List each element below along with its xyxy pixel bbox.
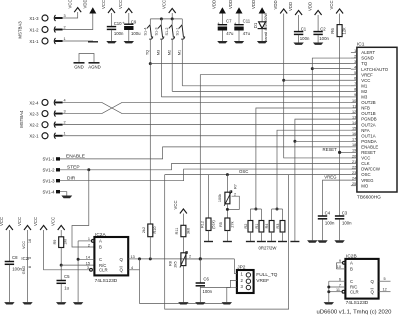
- wire DIR to DWCCW: [60, 169, 351, 181]
- svg-text:16: 16: [28, 239, 32, 243]
- svg-text:(51k): (51k): [212, 219, 216, 228]
- IC1 pin 10 OUT2B: [351, 99, 376, 105]
- svg-text:VDD: VDD: [83, 0, 88, 9]
- svg-text:3k6: 3k6: [186, 228, 190, 234]
- junction IC2B CLR: [327, 290, 330, 293]
- svg-text:0R27/2W: 0R27/2W: [259, 246, 278, 251]
- junction R10 at FULL_TQ: [149, 257, 152, 260]
- IC1 pin 9 M3: [351, 93, 368, 99]
- IC1 pin 6 VCC: [351, 77, 370, 83]
- svg-text:VCC: VCC: [68, 0, 73, 9]
- svg-text:2: 2: [88, 243, 90, 247]
- IC1 pin 15 NFA: [351, 127, 370, 133]
- svg-text:VCC: VCC: [22, 241, 26, 249]
- IC2B pin 5 Q: [379, 277, 391, 281]
- switch S1-4: [143, 19, 152, 64]
- svg-text:X1-2: X1-2: [29, 27, 39, 32]
- ground under C10: [106, 41, 116, 43]
- IC1 pin 25 MO: [351, 182, 369, 188]
- svg-text:M2: M2: [361, 89, 368, 94]
- wire RESET pin19: [340, 151, 351, 153]
- svg-text:uD6600 v1.1, Tmhq (c) 2020: uD6600 v1.1, Tmhq (c) 2020: [317, 310, 393, 316]
- svg-text:8: 8: [28, 266, 32, 268]
- ground under C1: [293, 43, 303, 45]
- capacitor C7 47u polarized: [217, 14, 234, 42]
- resistor R10 2k2: [142, 224, 157, 259]
- op-amp IC2A 74LS123D body: [94, 232, 128, 284]
- wire X2-2 to OUT2A pin14: [63, 124, 351, 126]
- junction RESET on POR line: [338, 151, 341, 154]
- wire SGND pin2: [312, 58, 351, 240]
- ground under R8: [178, 302, 188, 304]
- ground under R2: [246, 241, 255, 243]
- svg-text:24: 24: [352, 176, 356, 180]
- svg-text:4: 4: [354, 65, 356, 69]
- svg-text:4: 4: [131, 266, 133, 270]
- svg-text:R5: R5: [219, 222, 223, 227]
- svg-text:2: 2: [354, 54, 356, 58]
- svg-text:VCC: VCC: [162, 0, 167, 9]
- junction NFB sense pair: [254, 208, 257, 211]
- svg-text:A: A: [99, 239, 102, 244]
- svg-text:R6: R6: [330, 28, 335, 34]
- svg-text:100u: 100u: [131, 31, 141, 36]
- svg-text:VREF: VREF: [256, 278, 269, 284]
- svg-text:B: B: [99, 245, 102, 250]
- svg-text:S1-3: S1-3: [154, 27, 158, 35]
- potentiometer R7 100k: [218, 175, 239, 218]
- supply VCC above C10: [101, 0, 115, 13]
- svg-text:SV1-1: SV1-1: [43, 157, 56, 162]
- switch S1-2: [165, 19, 174, 91]
- svg-text:C10: C10: [114, 21, 122, 26]
- junction S1 rail M3: [160, 17, 163, 20]
- wire Qbar down to gnd rail: [140, 259, 228, 304]
- svg-text:100n: 100n: [300, 36, 310, 41]
- svg-text:TQ: TQ: [361, 61, 368, 66]
- IC1 pin 2 SGND: [351, 54, 374, 60]
- svg-text:IC1: IC1: [357, 42, 365, 48]
- svg-text:OUT2A: OUT2A: [361, 122, 375, 127]
- ground under C2: [313, 43, 323, 45]
- capacitor C10 100n: [107, 13, 124, 41]
- resistor R5 27k: [219, 218, 234, 242]
- svg-text:2k2: 2k2: [142, 227, 146, 233]
- IC1 pin 16 OUT1A: [351, 132, 376, 138]
- svg-text:OUT2B: OUT2B: [361, 100, 375, 105]
- svg-text:14: 14: [352, 121, 356, 125]
- capacitor C9 100u polarized: [122, 13, 141, 41]
- svg-text:R7: R7: [234, 184, 238, 189]
- svg-text:VCC: VCC: [17, 217, 22, 226]
- svg-text:100k: 100k: [218, 194, 222, 202]
- svg-text:M1: M1: [361, 83, 368, 88]
- wire PGNDB pin13: [295, 119, 351, 241]
- svg-text:IC2B: IC2B: [346, 254, 357, 260]
- junction OSC at R7: [226, 173, 229, 176]
- ground under C3: [334, 240, 344, 242]
- ground under SGND line: [307, 240, 317, 242]
- potentiometer R8 2k5: [168, 251, 200, 302]
- svg-text:100n: 100n: [319, 36, 329, 41]
- svg-text:VDD: VDD: [211, 0, 216, 9]
- svg-text:3: 3: [354, 60, 356, 64]
- ground under C6: [195, 302, 205, 304]
- wire X1-2 to VDD: [63, 13, 93, 30]
- svg-text:CLR: CLR: [99, 268, 108, 273]
- ground under IC2A A: [73, 302, 83, 304]
- ground under R4: [267, 241, 276, 243]
- svg-text:VCC: VCC: [118, 0, 123, 9]
- svg-text:47u: 47u: [243, 31, 251, 36]
- svg-text:5: 5: [354, 71, 356, 75]
- IC2B pin 7 R/C: [329, 283, 346, 287]
- svg-text:C4: C4: [325, 211, 331, 216]
- resistor R9 1M: [53, 230, 68, 265]
- wire IC2A A to ground: [77, 241, 79, 302]
- svg-text:C2: C2: [320, 26, 326, 31]
- wire X2-1 to OUT1A pin16: [63, 135, 351, 137]
- connector SV1 pin 2: [43, 168, 60, 173]
- supply VCC above R11: [173, 200, 187, 213]
- IC1 pin 5 VREF: [351, 71, 373, 77]
- wire R6 down to VREG net and C3: [339, 37, 341, 216]
- ground under IC2B: [324, 302, 334, 304]
- svg-text:VDD: VDD: [228, 0, 233, 9]
- wire X1-1 to GND: [63, 40, 93, 42]
- svg-text:NFA: NFA: [361, 128, 369, 133]
- svg-text:100n: 100n: [114, 31, 124, 36]
- connector JP2 body: [237, 264, 254, 293]
- resistor R3: [276, 221, 285, 242]
- svg-text:21: 21: [352, 160, 356, 164]
- IC2B pin 6 C: [329, 278, 346, 282]
- svg-text:R12: R12: [200, 221, 204, 228]
- svg-text:S1-4: S1-4: [143, 27, 147, 35]
- wire X2-4 crossover to OUT1B pin12: [63, 102, 351, 113]
- svg-text:1: 1: [64, 132, 66, 136]
- ground under C11: [234, 41, 244, 43]
- svg-text:PGNDB: PGNDB: [361, 117, 376, 122]
- svg-text:9: 9: [354, 93, 356, 97]
- resistor R4: [265, 221, 274, 242]
- ground under PGND line: [290, 241, 299, 243]
- svg-text:3: 3: [64, 109, 66, 113]
- svg-text:VREG: VREG: [324, 175, 337, 180]
- IC2A pin 14 C: [78, 256, 94, 260]
- supply VCC above R9: [51, 217, 65, 230]
- svg-text:1: 1: [354, 49, 356, 53]
- switch S1-3: [154, 19, 163, 97]
- svg-text:TQ: TQ: [146, 50, 150, 55]
- ground under C5: [56, 302, 66, 304]
- svg-text:2: 2: [64, 25, 66, 29]
- wire NFA pair top: [272, 209, 283, 221]
- svg-text:8: 8: [354, 88, 356, 92]
- svg-text:NFB: NFB: [361, 106, 370, 111]
- svg-text:R2: R2: [244, 224, 248, 229]
- IC2B pin 10 B: [336, 265, 345, 269]
- svg-text:5: 5: [384, 277, 386, 281]
- ground GND with AGND bridge: [74, 54, 101, 70]
- svg-text:RESET: RESET: [322, 147, 337, 152]
- op-amp IC1 TB6600HG body: [357, 42, 397, 201]
- connector X1 pin 3: [29, 14, 65, 21]
- svg-text:FULL_TQ: FULL_TQ: [256, 272, 277, 278]
- capacitor C2 100n: [313, 15, 329, 43]
- IC1 pin 19 RESET: [351, 149, 376, 155]
- svg-text:X2-1: X2-1: [29, 134, 39, 139]
- svg-text:12: 12: [383, 288, 387, 292]
- ground under R3: [278, 241, 287, 243]
- ground under D1: [257, 41, 267, 43]
- connector X2 pin 4: [29, 98, 65, 105]
- svg-text:2k5: 2k5: [173, 261, 177, 267]
- IC1 pin 4 LATCH/AUTO: [351, 65, 389, 71]
- svg-text:ALERT: ALERT: [361, 50, 375, 55]
- svg-text:VCC: VCC: [33, 217, 38, 226]
- wire ENABLE: [60, 147, 351, 159]
- IC1 pin 17 PGNDA: [351, 138, 377, 144]
- ground under C9: [124, 41, 134, 43]
- svg-text:VDD: VDD: [273, 0, 278, 9]
- supply VCC above IC2P: [17, 217, 31, 230]
- junction PGNDA: [293, 140, 296, 143]
- connector SV1 pin 4: [43, 190, 60, 195]
- junction IC2B RC: [327, 286, 330, 289]
- wire LATCH/AUTO pin4: [312, 68, 351, 70]
- svg-text:100n: 100n: [12, 267, 22, 272]
- wire NFB pair top: [250, 209, 261, 221]
- ground under R5: [223, 241, 232, 243]
- svg-text:C: C: [99, 257, 102, 262]
- svg-text:9: 9: [339, 259, 341, 263]
- svg-text:VCC: VCC: [173, 200, 178, 209]
- junction VREF wiper C6: [199, 257, 202, 260]
- resistor R6 12k: [330, 14, 347, 37]
- IC2A pin 4 Qbar: [128, 266, 139, 270]
- svg-text:OUT1A: OUT1A: [361, 133, 375, 138]
- wire IC2B A-B tie: [335, 263, 337, 269]
- junction VDD at pin6 row: [282, 79, 285, 82]
- svg-text:4: 4: [64, 98, 66, 102]
- junction STEP: [87, 168, 90, 171]
- svg-text:12k: 12k: [342, 27, 347, 35]
- wire PGNDA pin17: [295, 140, 351, 142]
- svg-text:D1: D1: [253, 22, 258, 28]
- connector X2 pin 1: [29, 132, 65, 139]
- resistor R12 (51k): [200, 175, 215, 242]
- svg-text:LATCH/AUTO: LATCH/AUTO: [361, 67, 388, 72]
- svg-text:VDD: VDD: [288, 2, 293, 11]
- svg-text:S1-1: S1-1: [175, 27, 179, 35]
- svg-text:R9: R9: [53, 240, 57, 245]
- ground under C8: [4, 302, 14, 304]
- power symbol IC2P: [21, 230, 31, 302]
- IC2A pin 13 Q: [128, 255, 139, 259]
- svg-text:23: 23: [352, 171, 356, 175]
- svg-text:11: 11: [336, 288, 340, 292]
- wire S1 top rail: [150, 13, 182, 19]
- capacitor C8 100n: [5, 230, 23, 302]
- svg-text:OSC: OSC: [239, 169, 248, 174]
- switch S1-1: [175, 19, 184, 86]
- svg-text:47u: 47u: [226, 31, 234, 36]
- wire FULL_TQ from Q: [140, 258, 235, 260]
- connector X2 pin 2: [29, 120, 65, 127]
- JP2 pin 2: [200, 278, 250, 288]
- ground under C4: [317, 240, 327, 242]
- resistor R1: [255, 221, 264, 242]
- IC2B pin 11 CLR: [329, 288, 345, 293]
- IC1 pin 7 M1: [351, 82, 368, 88]
- IC1 pin 13 PGNDB: [351, 115, 377, 121]
- wire SV1-4 to ground: [60, 192, 67, 196]
- IC1 pin 21 CLK: [351, 160, 370, 166]
- wire VCC to CLR pin3: [44, 230, 90, 270]
- svg-text:X2-4: X2-4: [29, 100, 39, 105]
- svg-text:C7: C7: [226, 19, 232, 24]
- svg-text:MSTBA3: MSTBA3: [18, 21, 23, 39]
- junction R9 RC node: [60, 264, 63, 267]
- wire OSC pin23: [165, 174, 351, 176]
- svg-text:CLR: CLR: [350, 289, 359, 294]
- svg-text:CLK: CLK: [361, 161, 369, 166]
- svg-text:7: 7: [339, 283, 341, 287]
- supply VDD above D1: [251, 0, 266, 14]
- svg-text:R1: R1: [255, 224, 259, 229]
- wire M3 to IC1 pin9: [161, 96, 351, 98]
- svg-text:1: 1: [64, 37, 66, 41]
- svg-text:1: 1: [88, 237, 90, 241]
- capacitor C1 100n: [294, 15, 310, 43]
- svg-text:10: 10: [337, 265, 341, 269]
- svg-text:C5: C5: [64, 274, 70, 279]
- op-amp IC2B 74LS123D body: [345, 254, 378, 306]
- svg-text:GND: GND: [74, 65, 84, 70]
- capacitor C3 100n: [335, 211, 352, 241]
- wire VDD to pin6: [284, 79, 351, 81]
- svg-text:RESET: RESET: [361, 150, 376, 155]
- supply VCC: [68, 0, 82, 12]
- svg-text:DW/CCW: DW/CCW: [361, 167, 381, 172]
- wire TQ to IC1 pin3: [150, 63, 351, 65]
- svg-text:7: 7: [354, 82, 356, 86]
- connector X1 pin 2: [29, 25, 65, 32]
- supply VCC to IC2A CLR: [33, 217, 47, 230]
- wire STEP down to IC2A B: [72, 170, 94, 247]
- svg-text:C6: C6: [203, 276, 209, 281]
- capacitor C11 47u polarized: [234, 14, 251, 42]
- IC2A pin 3 CLR: [87, 266, 93, 271]
- svg-text:12: 12: [352, 110, 356, 114]
- IC1 pin 22 DW/CCW: [351, 165, 381, 171]
- svg-text:10: 10: [352, 99, 356, 103]
- ground under IC2P: [22, 302, 32, 304]
- svg-text:R8: R8: [168, 261, 172, 266]
- svg-text:VREF: VREF: [361, 72, 373, 77]
- supply VDD above C1: [288, 2, 302, 15]
- svg-text:SV1-4: SV1-4: [43, 190, 56, 195]
- wire RC node to pin15: [61, 264, 94, 266]
- svg-text:6: 6: [354, 77, 356, 81]
- ground under C7: [217, 41, 227, 43]
- supply VCC above C8: [0, 217, 13, 230]
- connector SV1 pin 1: [43, 157, 60, 162]
- capacitor C5 1u: [57, 265, 71, 302]
- svg-text:2: 2: [64, 120, 66, 124]
- svg-text:X1-1: X1-1: [29, 39, 39, 44]
- svg-text:M3: M3: [157, 50, 161, 55]
- svg-text:X2-2: X2-2: [29, 122, 39, 127]
- svg-text:OSC: OSC: [361, 172, 370, 177]
- svg-text:15: 15: [86, 261, 90, 265]
- wire VDD rail down: [284, 14, 351, 158]
- connector X2 pin 3: [29, 109, 65, 116]
- svg-text:X1-3: X1-3: [29, 16, 39, 21]
- supply VCC above S1: [162, 0, 176, 13]
- supply VDD above C2: [307, 2, 321, 15]
- wire NFA pin15: [277, 130, 351, 209]
- svg-text:OUT1B: OUT1B: [361, 111, 375, 116]
- junction Qbar branch: [138, 257, 141, 260]
- IC2B pin 9 A: [336, 259, 345, 264]
- supply VCC above C9: [118, 0, 132, 13]
- IC1 pin 1 ALERT: [351, 49, 376, 55]
- svg-text:VCC: VCC: [361, 78, 370, 83]
- resistor R11 3k6: [175, 214, 190, 253]
- svg-text:VCC: VCC: [361, 156, 370, 161]
- svg-text:M3: M3: [361, 95, 368, 100]
- wire X2-3 crossover to OUT2B pin10: [63, 102, 351, 113]
- junction NFA sense pair: [276, 208, 279, 211]
- IC1 pin 8 M2: [351, 88, 368, 94]
- svg-text:S1-2: S1-2: [165, 27, 169, 35]
- svg-text:ENABLE: ENABLE: [361, 144, 378, 149]
- svg-text:A: A: [350, 261, 353, 266]
- supply VCC above R6: [329, 0, 343, 13]
- svg-text:11: 11: [352, 104, 356, 108]
- supply VDD above C7: [211, 0, 226, 14]
- svg-text:VCC: VCC: [0, 217, 4, 226]
- svg-text:3: 3: [87, 266, 89, 270]
- wire IC2B C RC CLR to ground: [328, 281, 330, 302]
- svg-text:MO: MO: [361, 183, 369, 188]
- connector SV1 pin 3: [43, 179, 60, 184]
- svg-text:JP2: JP2: [237, 264, 246, 270]
- ground under SV1-4: [61, 196, 72, 199]
- svg-text:15: 15: [352, 127, 356, 131]
- ground: [88, 41, 98, 43]
- svg-text:6: 6: [339, 278, 341, 282]
- JP2 pin 1: [234, 259, 250, 277]
- IC1 pin 11 NFB: [351, 104, 370, 110]
- diode D1 Transil 43V/600W: [253, 13, 268, 43]
- svg-text:13: 13: [352, 115, 356, 119]
- connector X1 pin 1: [29, 37, 65, 44]
- svg-text:PGNDA: PGNDA: [361, 139, 376, 144]
- svg-text:VCC: VCC: [329, 0, 334, 9]
- svg-text:SGND: SGND: [361, 56, 373, 61]
- IC1 pin 3 TQ: [351, 60, 368, 66]
- svg-text:16: 16: [352, 132, 356, 136]
- wire X1-3 to VCC: [63, 12, 78, 18]
- svg-text:B: B: [350, 267, 353, 272]
- svg-text:C11: C11: [243, 19, 251, 24]
- IC1 pin 12 OUT1B: [351, 110, 376, 116]
- resistor R2: [244, 221, 253, 242]
- IC2A pin 1 A: [78, 237, 94, 242]
